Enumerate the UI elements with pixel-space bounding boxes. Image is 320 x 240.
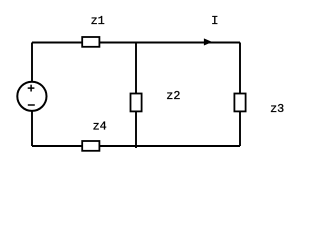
voltage source V1 xyxy=(17,82,46,111)
wire left vertical (source leads) xyxy=(31,43,33,83)
svg-text:z1: z1 xyxy=(91,14,105,28)
svg-text:z2: z2 xyxy=(166,89,180,103)
svg-text:z4: z4 xyxy=(93,119,107,133)
wire bottom: from source bottom to right branch xyxy=(32,145,240,147)
current arrow I xyxy=(204,39,211,45)
wire top: node from source top to right branch xyxy=(32,42,240,44)
svg-text:I: I xyxy=(211,14,218,28)
resistor z4 xyxy=(82,141,99,151)
wire right branch xyxy=(239,43,241,147)
svg-text:z3: z3 xyxy=(270,102,284,116)
resistor z2 xyxy=(131,94,142,112)
resistor z1 xyxy=(82,37,99,47)
wire middle branch xyxy=(135,43,137,149)
resistor z3 xyxy=(234,94,245,112)
